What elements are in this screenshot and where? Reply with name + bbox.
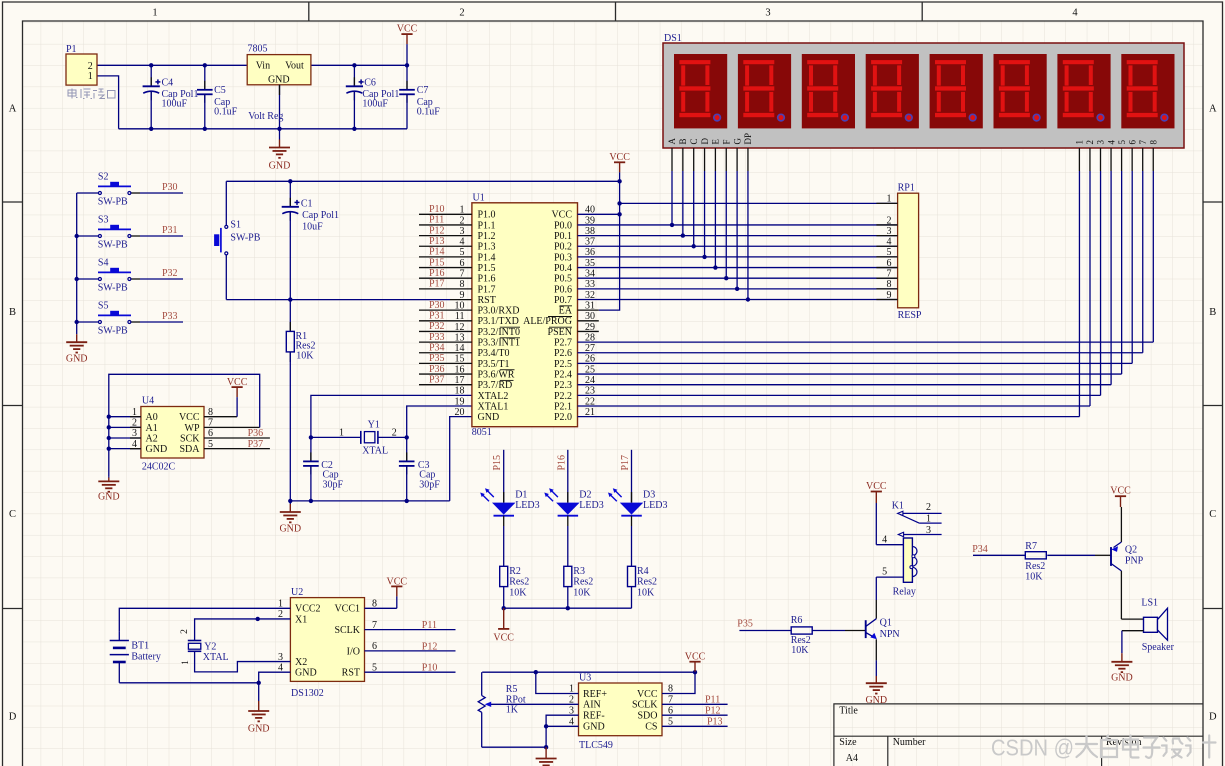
svg-text:Title: Title [839, 706, 858, 717]
watermark CSDN [991, 735, 1216, 761]
svg-text:4: 4 [1106, 140, 1116, 145]
ground GND (U3) [536, 747, 557, 766]
svg-text:24C02C: 24C02C [142, 461, 176, 472]
switch S3 SW-PB [77, 215, 183, 251]
svg-text:LED3: LED3 [643, 500, 667, 511]
wire P2.5 net (U1 pin26 to DS1 digit) [578, 171, 1133, 363]
wire U3 bottom rail [482, 746, 546, 748]
net label P31 [162, 225, 178, 236]
svg-text:P0.0: P0.0 [554, 220, 572, 231]
switch S1 SW-PB [214, 181, 261, 299]
svg-text:P16: P16 [556, 455, 567, 471]
wire Vout net (7805 to VCC) [311, 64, 407, 66]
svg-text:S1: S1 [230, 220, 241, 231]
LED D1 LED3 [480, 450, 539, 608]
svg-text:P12: P12 [429, 225, 445, 236]
svg-text:20: 20 [455, 407, 465, 418]
svg-text:Y1: Y1 [368, 420, 380, 431]
svg-text:P12: P12 [422, 641, 438, 652]
junction dots power rails [149, 63, 409, 131]
svg-text:10K: 10K [573, 588, 591, 599]
svg-text:P33: P33 [162, 311, 178, 322]
speaker LS1 [1141, 598, 1174, 653]
svg-text:Number: Number [893, 737, 926, 748]
wire U3 CS P13 [662, 725, 728, 727]
svg-text:S3: S3 [98, 215, 109, 226]
wire P2.6 net (U1 pin27 to DS1 digit) [578, 171, 1143, 353]
svg-text:DS1: DS1 [664, 33, 682, 44]
resistor R7 Res2 10K [973, 541, 1095, 582]
P1 comment text 电源接口 (drawn glyphs) [68, 89, 115, 99]
svg-text:P0.1: P0.1 [554, 231, 572, 242]
svg-text:8051: 8051 [472, 427, 492, 438]
svg-text:X1: X1 [295, 614, 307, 625]
switch S4 SW-PB [77, 258, 183, 294]
svg-text:VCC: VCC [685, 652, 706, 663]
svg-text:P3.2/INT0: P3.2/INT0 [478, 327, 521, 338]
svg-text:VCC: VCC [387, 576, 408, 587]
svg-text:P2.2: P2.2 [554, 391, 572, 402]
svg-text:P11: P11 [422, 620, 437, 631]
wire U4 WP ground loop [107, 374, 260, 476]
svg-text:SDA: SDA [179, 444, 200, 455]
svg-text:S2: S2 [98, 172, 109, 183]
svg-text:R4: R4 [637, 566, 649, 577]
svg-text:U4: U4 [142, 396, 154, 407]
svg-text:3: 3 [887, 226, 892, 237]
svg-text:2: 2 [887, 215, 892, 226]
svg-text:2: 2 [1085, 140, 1095, 145]
wire P0.6 net (U1 pin33 to DS1/RP1) [578, 171, 898, 291]
svg-text:GND: GND [583, 722, 605, 733]
svg-text:CS: CS [645, 722, 657, 733]
svg-text:R3: R3 [573, 566, 585, 577]
svg-text:P2.1: P2.1 [554, 401, 572, 412]
svg-text:6: 6 [887, 258, 892, 269]
wire P2.7 net (U1 pin28 to DS1 digit) [578, 171, 1154, 342]
svg-text:CSDN @: CSDN @ [991, 735, 1074, 761]
wire Y2 pin1 to U2 X2 [195, 651, 291, 672]
svg-text:P11: P11 [429, 215, 444, 226]
svg-text:4: 4 [132, 439, 137, 450]
net label P32 [162, 268, 178, 279]
svg-text:SCLK: SCLK [632, 700, 658, 711]
svg-text:D: D [1209, 712, 1217, 723]
svg-text:P32: P32 [429, 321, 445, 332]
svg-text:A: A [1209, 104, 1217, 115]
ground GND (Q1) [865, 676, 887, 706]
svg-text:PNP: PNP [1125, 556, 1144, 567]
svg-text:1: 1 [887, 194, 892, 205]
svg-text:5: 5 [882, 567, 887, 578]
svg-text:P0.5: P0.5 [554, 274, 572, 285]
wire U3 SCLK P11 [662, 703, 728, 705]
svg-text:LS1: LS1 [1141, 598, 1158, 609]
svg-text:Res2: Res2 [637, 577, 657, 588]
voltage regulator U 7805 [247, 44, 311, 129]
wire P0.4 net (U1 pin35 to DS1/RP1) [578, 171, 898, 270]
svg-text:GND: GND [1111, 673, 1133, 684]
svg-text:RESP: RESP [898, 310, 922, 321]
svg-text:P1.4: P1.4 [478, 252, 496, 263]
svg-text:XTAL1: XTAL1 [478, 401, 509, 412]
svg-text:SW-PB: SW-PB [230, 233, 260, 244]
svg-text:10uF: 10uF [302, 222, 323, 233]
svg-text:P3.7/RD: P3.7/RD [478, 380, 513, 391]
svg-text:P1.5: P1.5 [478, 263, 496, 274]
DS1 pin stubs [672, 148, 1153, 171]
svg-text:10K: 10K [296, 350, 314, 361]
svg-text:4: 4 [1072, 8, 1078, 19]
svg-text:P13: P13 [707, 717, 723, 728]
svg-text:P31: P31 [429, 311, 445, 322]
svg-text:U2: U2 [291, 587, 303, 598]
svg-text:4: 4 [887, 237, 892, 248]
svg-text:P32: P32 [162, 268, 178, 279]
svg-text:VCC: VCC [227, 377, 248, 388]
potentiometer R5 RPot 1K [478, 672, 578, 747]
svg-text:GND: GND [66, 354, 88, 365]
LED D3 LED3 [608, 450, 667, 608]
svg-text:3: 3 [765, 8, 770, 19]
net label P15 (rotated) [492, 455, 503, 471]
wire P0.1 net (U1 pin38 to DS1/RP1) [578, 171, 898, 238]
DS1 digit pin labels 1-8 [1075, 140, 1159, 145]
svg-text:Speaker: Speaker [1142, 642, 1175, 653]
svg-text:2: 2 [459, 8, 464, 19]
svg-text:P14: P14 [429, 247, 445, 258]
svg-text:DP: DP [743, 133, 753, 145]
wire LS1 to ground [1122, 631, 1144, 654]
svg-text:G: G [732, 138, 742, 145]
svg-text:P1.7: P1.7 [478, 284, 496, 295]
net label P37 [248, 439, 264, 450]
svg-text:GND: GND [98, 492, 120, 503]
svg-text:Relay: Relay [893, 587, 916, 598]
svg-text:P12: P12 [705, 706, 721, 717]
svg-text:P1.6: P1.6 [478, 274, 496, 285]
svg-text:P2.7: P2.7 [554, 338, 572, 349]
svg-text:P2.5: P2.5 [554, 359, 572, 370]
svg-text:VCC1: VCC1 [334, 604, 360, 615]
svg-text:VCC: VCC [179, 412, 200, 423]
wire U1 VCC pin40 [578, 213, 620, 215]
svg-text:Cap Pol1: Cap Pol1 [302, 210, 339, 221]
svg-text:P35: P35 [737, 618, 753, 629]
power port VCC (relay) [866, 481, 887, 545]
wire U3 SDO P12 [662, 714, 728, 716]
wire U3 top rail (VCC/REF+/R5) [482, 670, 697, 694]
svg-text:C: C [9, 509, 16, 520]
svg-text:P37: P37 [248, 439, 264, 450]
wire Q2 collector to LS1 [1121, 571, 1143, 619]
wire reset top rail (VCC to S1/C1) [226, 179, 622, 183]
svg-text:P1.1: P1.1 [478, 220, 496, 231]
svg-text:LED3: LED3 [579, 500, 603, 511]
svg-text:1: 1 [1075, 140, 1085, 145]
svg-text:A: A [667, 138, 677, 145]
wire Vin net (P1 pin2 to 7805) [97, 64, 247, 66]
svg-text:F: F [721, 139, 731, 144]
svg-text:1: 1 [152, 8, 157, 19]
svg-text:7805: 7805 [248, 44, 268, 55]
power port VCC (U3) [685, 652, 706, 673]
svg-text:SW-PB: SW-PB [98, 326, 128, 337]
svg-text:0.1uF: 0.1uF [417, 106, 441, 117]
svg-text:9: 9 [460, 290, 465, 301]
svg-text:TLC549: TLC549 [579, 740, 613, 751]
title block [834, 704, 1203, 766]
svg-text:100uF: 100uF [162, 99, 188, 110]
svg-text:P30: P30 [162, 182, 178, 193]
switch S2 SW-PB [77, 172, 183, 208]
svg-text:18: 18 [455, 386, 465, 397]
svg-text:SCLK: SCLK [334, 625, 360, 636]
svg-text:P1.0: P1.0 [478, 210, 496, 221]
svg-text:REF+: REF+ [583, 689, 607, 700]
wire P0.5 net (U1 pin34 to DS1/RP1) [578, 171, 898, 280]
svg-text:S4: S4 [98, 258, 109, 269]
svg-text:P15: P15 [492, 455, 503, 471]
IC U3 TLC549 [569, 673, 673, 751]
svg-text:A0: A0 [146, 412, 158, 423]
svg-text:2: 2 [926, 502, 931, 513]
LED D2 LED3 [544, 450, 603, 608]
wire U2 RST P10 [365, 671, 456, 673]
resistor R1 Res2 10K [286, 300, 315, 501]
relay K1 [876, 501, 941, 598]
svg-text:I/O: I/O [347, 646, 360, 657]
svg-text:VCC: VCC [397, 24, 418, 35]
svg-text:ALE/PROG: ALE/PROG [523, 316, 572, 327]
power port VCC (Q2) [1110, 486, 1131, 543]
wire U2 I/O P12 [365, 650, 456, 652]
label Volt Reg [248, 111, 283, 122]
svg-text:SW-PB: SW-PB [98, 283, 128, 294]
svg-text:VCC: VCC [1110, 486, 1131, 497]
svg-text:10K: 10K [791, 645, 809, 656]
svg-text:VCC2: VCC2 [295, 604, 321, 615]
svg-text:4: 4 [882, 535, 887, 546]
wire U2 VCC2 to BT1 [119, 608, 290, 631]
svg-text:30pF: 30pF [419, 479, 440, 490]
svg-text:P3.0/RXD: P3.0/RXD [478, 306, 520, 317]
capacitor C7 (Cap 0.1uF) [399, 65, 440, 129]
svg-text:P11: P11 [705, 695, 720, 706]
ground GND (XTAL rail) [279, 501, 301, 535]
svg-text:REF-: REF- [583, 711, 605, 722]
svg-text:GND: GND [279, 524, 301, 535]
svg-text:R5: R5 [506, 684, 518, 695]
svg-text:P2.3: P2.3 [554, 380, 572, 391]
svg-text:5: 5 [887, 247, 892, 258]
svg-text:P31: P31 [162, 225, 178, 236]
svg-text:D3: D3 [643, 489, 655, 500]
wire P2.0 net (U1 pin21 to DS1 digit) [578, 171, 1080, 417]
svg-text:P35: P35 [429, 353, 445, 364]
power port VCC (reset/U1) [609, 152, 630, 181]
svg-text:PSEN: PSEN [548, 327, 572, 338]
svg-text:SW-PB: SW-PB [98, 197, 128, 208]
svg-text:R6: R6 [791, 615, 803, 626]
title block texts [839, 706, 1141, 764]
svg-text:P1.2: P1.2 [478, 231, 496, 242]
resistor pack RP1 RESP [876, 183, 922, 321]
svg-text:2: 2 [132, 418, 137, 429]
svg-text:2: 2 [392, 427, 397, 438]
svg-text:R2: R2 [509, 566, 521, 577]
wire P2.1 net (U1 pin22 to DS1 digit) [578, 171, 1091, 406]
svg-text:RST: RST [478, 295, 496, 306]
capacitor C1 (Cap Pol1 10uF) [282, 181, 339, 299]
wire U2 X1 to Y2 [195, 617, 291, 641]
svg-text:Volt Reg: Volt Reg [248, 111, 283, 122]
ground GND (LS1) [1111, 653, 1133, 683]
wire P2.4 net (U1 pin25 to DS1 digit) [578, 171, 1122, 374]
switch S5 SW-PB [77, 301, 183, 337]
DS1 segment pin labels A-DP [667, 133, 753, 145]
IC U2 DS1302 [278, 587, 377, 699]
svg-text:C: C [689, 138, 699, 144]
wire RST net rail [226, 297, 472, 301]
svg-text:P3.4/T0: P3.4/T0 [478, 348, 510, 359]
net label P12 (U3) [705, 706, 721, 717]
svg-text:P3.6/WR: P3.6/WR [478, 369, 515, 380]
svg-text:P13: P13 [429, 236, 445, 247]
wire Q1 emitter to ground [875, 639, 877, 676]
svg-text:E: E [711, 139, 721, 145]
wire P0.0 net (U1 pin39 to DS1/RP1) [578, 171, 898, 227]
svg-text:2: 2 [88, 61, 93, 72]
svg-text:VCC: VCC [866, 481, 887, 492]
svg-text:X2: X2 [295, 657, 307, 668]
display DS1 8-digit 7-segment [663, 33, 1184, 148]
svg-text:100uF: 100uF [362, 99, 388, 110]
svg-text:XTAL: XTAL [203, 652, 229, 663]
ground GND (power section) [269, 129, 291, 172]
net label P16 (rotated) [556, 455, 567, 471]
svg-text:SW-PB: SW-PB [98, 240, 128, 251]
svg-text:P1: P1 [66, 44, 77, 55]
battery BT1 [110, 632, 161, 683]
svg-text:P3.1/TXD: P3.1/TXD [478, 316, 519, 327]
svg-text:1K: 1K [506, 704, 519, 715]
wire P0.7 net (U1 pin32 to DS1/RP1) [578, 171, 898, 302]
transistor Q2 PNP [1095, 542, 1144, 571]
svg-text:K1: K1 [892, 501, 904, 512]
svg-text:D1: D1 [515, 489, 527, 500]
power port VCC (U4) [227, 377, 248, 417]
svg-text:P36: P36 [429, 364, 445, 375]
crystal Y2 XTAL [180, 629, 229, 665]
svg-text:9: 9 [887, 290, 892, 301]
svg-text:A1: A1 [146, 423, 158, 434]
svg-text:P3.5/T1: P3.5/T1 [478, 359, 510, 370]
svg-text:S5: S5 [98, 301, 109, 312]
net label P36 [248, 428, 264, 439]
svg-text:C6: C6 [364, 77, 376, 88]
wire VCC/EA vertical [578, 181, 622, 310]
svg-text:R7: R7 [1025, 541, 1037, 552]
svg-text:P36: P36 [248, 428, 264, 439]
svg-text:C4: C4 [162, 77, 174, 88]
svg-text:Vin: Vin [256, 60, 270, 71]
wire P0.2 net (U1 pin37 to DS1/RP1) [578, 171, 898, 248]
svg-text:P34: P34 [972, 544, 988, 555]
svg-text:P34: P34 [429, 342, 445, 353]
wire ground rail (power section) [119, 128, 407, 130]
svg-text:P16: P16 [429, 268, 445, 279]
svg-text:SCK: SCK [180, 433, 200, 444]
svg-text:SDO: SDO [637, 711, 657, 722]
svg-text:DS1302: DS1302 [291, 688, 324, 699]
svg-text:Vout: Vout [285, 60, 304, 71]
wire U2 GND / BT1 rail [119, 672, 290, 685]
svg-text:D2: D2 [579, 489, 591, 500]
wire P2.2 net (U1 pin23 to DS1 digit) [578, 171, 1101, 395]
svg-text:Q2: Q2 [1125, 545, 1137, 556]
svg-text:C: C [1209, 509, 1216, 520]
svg-text:Y2: Y2 [204, 641, 216, 652]
svg-text:P3.3/INT1: P3.3/INT1 [478, 338, 521, 349]
svg-text:B: B [9, 307, 16, 318]
wire switch ground rail [75, 193, 79, 324]
net label P11 (U2) [422, 620, 437, 631]
svg-text:P0.3: P0.3 [554, 252, 572, 263]
wire P1 pin1 to ground rail [97, 76, 119, 129]
U1 left net labels P10-P17 [429, 204, 445, 290]
svg-text:GND: GND [295, 668, 317, 679]
svg-text:1: 1 [88, 71, 93, 82]
svg-text:P0.4: P0.4 [554, 263, 572, 274]
svg-text:19: 19 [455, 396, 465, 407]
capacitor C5 (Cap 0.1uF) [197, 65, 238, 129]
svg-text:VCC: VCC [609, 152, 630, 163]
svg-text:10K: 10K [1025, 571, 1043, 582]
svg-text:LED3: LED3 [515, 500, 539, 511]
svg-text:3: 3 [132, 428, 137, 439]
IC U4 24C02C [109, 396, 270, 473]
svg-text:P17: P17 [429, 279, 445, 290]
net label P34 [972, 544, 988, 555]
svg-text:Battery: Battery [131, 651, 160, 662]
capacitor C4 (Cap Pol1 100uF) [143, 65, 199, 129]
capacitor C2 (Cap 30pF) [303, 437, 343, 501]
svg-text:AIN: AIN [583, 700, 601, 711]
svg-text:GND: GND [146, 444, 168, 455]
svg-text:C7: C7 [417, 85, 429, 96]
ground GND (switches) [66, 322, 88, 365]
capacitor C3 (Cap 30pF) [399, 437, 440, 501]
svg-text:A2: A2 [146, 433, 158, 444]
svg-text:Res2: Res2 [509, 577, 529, 588]
svg-text:3: 3 [926, 525, 931, 536]
transistor Q1 NPN [845, 618, 900, 641]
svg-text:GND: GND [478, 412, 500, 423]
ground GND (U4) [98, 477, 120, 503]
svg-text:XTAL2: XTAL2 [478, 391, 509, 402]
wire XTAL1 net (U1 pin19 to Y1/C3) [407, 406, 472, 437]
resistor R6 Res2 10K [739, 615, 845, 656]
svg-text:P33: P33 [429, 332, 445, 343]
svg-text:P37: P37 [429, 374, 445, 385]
svg-text:P17: P17 [620, 455, 631, 471]
wire U2 VCC1 [365, 607, 397, 609]
svg-text:1: 1 [339, 427, 344, 438]
svg-text:EA: EA [559, 306, 573, 317]
svg-text:P2.0: P2.0 [554, 412, 572, 423]
svg-text:P10: P10 [422, 663, 438, 674]
